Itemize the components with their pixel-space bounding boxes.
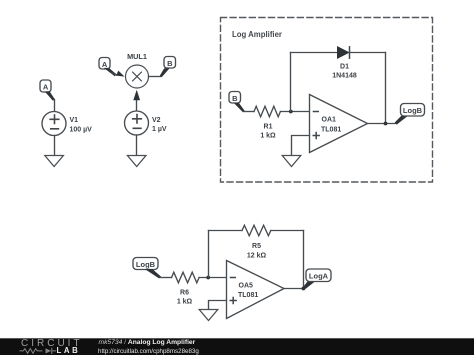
OA5 value label xyxy=(238,283,258,300)
voltage source V2 xyxy=(125,111,149,135)
op-amp OA5 xyxy=(227,261,285,319)
svg-text:V2: V2 xyxy=(152,117,161,124)
wire (feedback top left OA5) xyxy=(209,230,243,232)
R6 value label xyxy=(177,290,193,306)
resistor R6 xyxy=(172,272,200,283)
voltage source V1 xyxy=(42,112,66,136)
svg-text:D1: D1 xyxy=(340,64,349,71)
wire (B flag to R1) xyxy=(234,103,254,112)
footer title text xyxy=(98,339,199,355)
wire (R6 to OA5 inverting input) xyxy=(199,277,226,279)
wire (feedback top right OA5) xyxy=(271,230,304,232)
wire (feedback top right) xyxy=(350,52,386,54)
wire (output to LogA flag) xyxy=(303,281,315,289)
node LogA flag xyxy=(306,269,331,282)
D1 value label xyxy=(332,64,357,80)
ground (V2) xyxy=(127,156,146,167)
OA1 value label xyxy=(321,117,341,134)
svg-text:A: A xyxy=(43,83,49,92)
node LogB flag (bottom input) xyxy=(133,258,158,270)
svg-text:OA1: OA1 xyxy=(322,117,337,124)
svg-text:LogB: LogB xyxy=(136,260,156,269)
svg-text:mk5734 / Analog Log Amplifier: mk5734 / Analog Log Amplifier xyxy=(99,339,196,346)
wire (V2 to MUL1, with input arrow) xyxy=(133,90,140,112)
Log Amplifier dashed enclosure xyxy=(221,18,433,183)
junction (inverting node) xyxy=(289,110,293,114)
wire (feedback left vertical) xyxy=(290,53,292,112)
ground (OA1 +) xyxy=(282,156,301,167)
node B flag (log amp input) xyxy=(229,92,241,104)
svg-text:1 µV: 1 µV xyxy=(152,126,167,133)
ground (V1) xyxy=(45,156,64,167)
svg-text:LogA: LogA xyxy=(309,272,329,281)
ground (OA5 +) xyxy=(199,310,218,321)
wire (OA5 non-inverting input) xyxy=(209,301,227,310)
diode D1 xyxy=(338,47,350,58)
wire (V1 to ground) xyxy=(54,136,56,156)
CircuitLab logo wordmark xyxy=(20,338,83,355)
wire (V2 to ground) xyxy=(136,135,138,155)
svg-text:TL081: TL081 xyxy=(321,127,341,134)
wire (feedback right vertical) xyxy=(385,53,387,124)
wire (OA5 output) xyxy=(284,288,304,290)
svg-text:1 kΩ: 1 kΩ xyxy=(177,299,193,306)
wire (MUL1 to B flag) xyxy=(149,68,170,77)
node LogB flag (log amp output) xyxy=(401,104,425,117)
junction (output node) xyxy=(384,122,388,126)
footer bar xyxy=(0,338,474,355)
svg-text:LogB: LogB xyxy=(403,106,423,115)
wire (feedback top left) xyxy=(291,52,338,54)
op-amp OA1 xyxy=(310,95,368,153)
svg-text:R5: R5 xyxy=(252,243,261,250)
wire (feedback right vertical OA5) xyxy=(303,231,305,289)
multiplier MUL1 xyxy=(126,65,149,88)
svg-text:http://circuitlab.com/cphp8ms2: http://circuitlab.com/cphp8ms28e83g xyxy=(98,348,199,355)
wire (OA1 non-inverting input) xyxy=(292,136,310,156)
junction (OA5 inverting node) xyxy=(206,276,210,280)
svg-text:V1: V1 xyxy=(70,117,79,124)
wire (R1 to OA1 inverting input) xyxy=(281,111,310,113)
svg-text:12 kΩ: 12 kΩ xyxy=(247,253,267,260)
svg-text:B: B xyxy=(167,59,173,68)
svg-text:Log Amplifier: Log Amplifier xyxy=(232,30,282,39)
wire (output to LogB flag) xyxy=(395,116,408,125)
svg-text:MUL1: MUL1 xyxy=(127,52,147,61)
node A flag (at V1) xyxy=(40,80,51,92)
R5 value label xyxy=(247,243,267,260)
junction (OA5 output node) xyxy=(302,287,306,291)
wire (feedback left vertical OA5) xyxy=(208,231,210,278)
svg-text:1 kΩ: 1 kΩ xyxy=(260,133,276,140)
svg-text:A: A xyxy=(102,60,108,69)
svg-text:B: B xyxy=(232,94,238,103)
svg-text:OA5: OA5 xyxy=(239,283,254,290)
R1 value label xyxy=(260,124,276,140)
svg-text:LAB: LAB xyxy=(57,346,81,355)
svg-text:R6: R6 xyxy=(180,290,189,297)
wire (A flag to MUL1, with input arrow) xyxy=(104,68,125,77)
wire (A flag to V1) xyxy=(45,91,55,111)
wire (OA1 output) xyxy=(368,123,398,125)
svg-text:R1: R1 xyxy=(264,124,273,131)
V1 value label xyxy=(70,117,93,134)
node B flag (at MUL1) xyxy=(164,57,176,69)
svg-text:1N4148: 1N4148 xyxy=(332,73,357,80)
wire (LogB flag to R6) xyxy=(145,269,172,278)
resistor R1 xyxy=(254,106,280,117)
V2 value label xyxy=(152,117,167,133)
svg-text:TL081: TL081 xyxy=(238,292,258,299)
svg-text:100 µV: 100 µV xyxy=(70,127,93,134)
resistor R5 xyxy=(242,225,271,236)
node A flag (at MUL1) xyxy=(99,58,110,70)
